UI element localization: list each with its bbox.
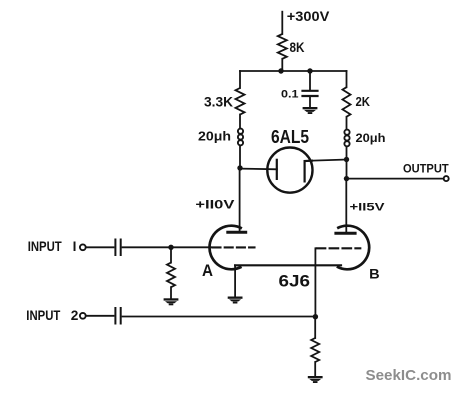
resistor cathode bias — [311, 338, 319, 362]
wire bus to 2K — [346, 71, 348, 87]
wire bus to 3.3K — [239, 71, 241, 88]
wire node to R grid leak — [170, 247, 172, 262]
junction dot input2 node — [313, 314, 318, 319]
svg-text:2K: 2K — [356, 95, 371, 109]
ground for grid leak — [164, 298, 179, 300]
ground for cathode — [228, 297, 243, 299]
svg-text:+II5V: +II5V — [350, 202, 386, 214]
6J6 A plate bar — [228, 231, 246, 234]
resistor grid leak A — [167, 263, 175, 288]
ground for bias resistor — [308, 376, 323, 378]
junction dot input1 node — [168, 245, 173, 250]
svg-text:20μh: 20μh — [356, 131, 386, 145]
6J6 B plate bar — [336, 232, 355, 235]
6AL5 plate bar — [276, 160, 278, 179]
resistor R 8K — [278, 34, 287, 59]
inductor 20uh right — [344, 130, 349, 135]
wire node to R bottom — [314, 317, 316, 338]
terminal OUTPUT — [444, 176, 449, 181]
capacitor 0.1 top plate — [303, 90, 318, 92]
wire cap2 to cathode node — [123, 316, 316, 318]
svg-text:20μh: 20μh — [198, 129, 231, 144]
junction dot bus-left — [278, 68, 283, 73]
svg-text:A: A — [202, 262, 213, 280]
svg-text:+300V: +300V — [287, 9, 330, 25]
wire cathode to ground — [234, 265, 236, 296]
6AL5 cathode bracket — [305, 161, 313, 183]
capacitor C1 plate left — [114, 240, 116, 256]
wire cathode bar — [235, 264, 341, 266]
svg-text:B: B — [369, 267, 380, 283]
wire plate lead B — [345, 179, 347, 232]
wire 2K to coil — [346, 117, 348, 129]
svg-text:INPUT: INPUT — [28, 239, 63, 254]
tube V1B envelope arc — [337, 226, 369, 270]
svg-text:SeekIC.com: SeekIC.com — [366, 368, 452, 384]
wire grid B down lead — [314, 248, 316, 316]
wire 3.3K to coil — [239, 115, 241, 129]
inductor 20uh left — [238, 129, 243, 134]
ground for 0.1 cap — [303, 107, 318, 109]
junction dot bus-cap — [307, 68, 312, 73]
svg-text:INPUT: INPUT — [26, 308, 61, 323]
resistor 3.3K — [236, 88, 245, 115]
wire R to ground — [170, 287, 172, 298]
terminal INPUT 2 — [80, 313, 86, 319]
wire R bottom to ground — [314, 362, 316, 376]
terminal INPUT 1 — [80, 244, 86, 250]
tube V1A envelope arc — [210, 226, 242, 270]
wire plate lead A — [239, 168, 241, 231]
capacitor 0.1 bottom plate — [303, 95, 318, 97]
svg-text:OUTPUT: OUTPUT — [403, 163, 449, 176]
wire coil to node — [239, 146, 241, 168]
wire input2 to cap — [86, 315, 113, 317]
svg-text:3.3K: 3.3K — [204, 94, 233, 109]
junction dot 6AL5 lead — [344, 157, 349, 162]
tube U1 6AL5 envelope — [267, 148, 312, 193]
capacitor C2 plate left — [114, 308, 116, 324]
wire cap1 to grid A — [123, 246, 212, 248]
wire input1 to cap — [86, 246, 113, 248]
wire coil to node — [346, 147, 348, 160]
wire 6AL5 left lead — [240, 168, 277, 171]
6J6 B grid dashes — [317, 247, 361, 249]
wire +300V lead — [281, 12, 283, 34]
svg-text:6AL5: 6AL5 — [271, 126, 309, 147]
resistor 2K — [343, 87, 351, 117]
junction dot left node — [237, 165, 242, 170]
wire node to output node — [346, 160, 348, 179]
junction dot output node — [344, 176, 349, 181]
svg-text:+II0V: +II0V — [195, 200, 234, 212]
svg-text:0.1: 0.1 — [281, 88, 299, 100]
svg-text:6J6: 6J6 — [279, 272, 311, 291]
capacitor C1 plate right — [120, 240, 122, 256]
wire 6AL5 right lead — [313, 160, 347, 161]
6J6 A grid dashes — [213, 246, 255, 248]
capacitor C2 plate right — [120, 308, 122, 324]
wire 8K to bus — [281, 59, 283, 71]
wire top bus — [240, 70, 347, 72]
svg-text:8K: 8K — [290, 40, 305, 55]
wire bus to cap 0.1 — [309, 71, 311, 90]
wire cap to ground — [309, 96, 311, 107]
svg-text:2: 2 — [71, 308, 79, 323]
wire output line — [347, 178, 444, 180]
svg-text:I: I — [73, 239, 77, 254]
